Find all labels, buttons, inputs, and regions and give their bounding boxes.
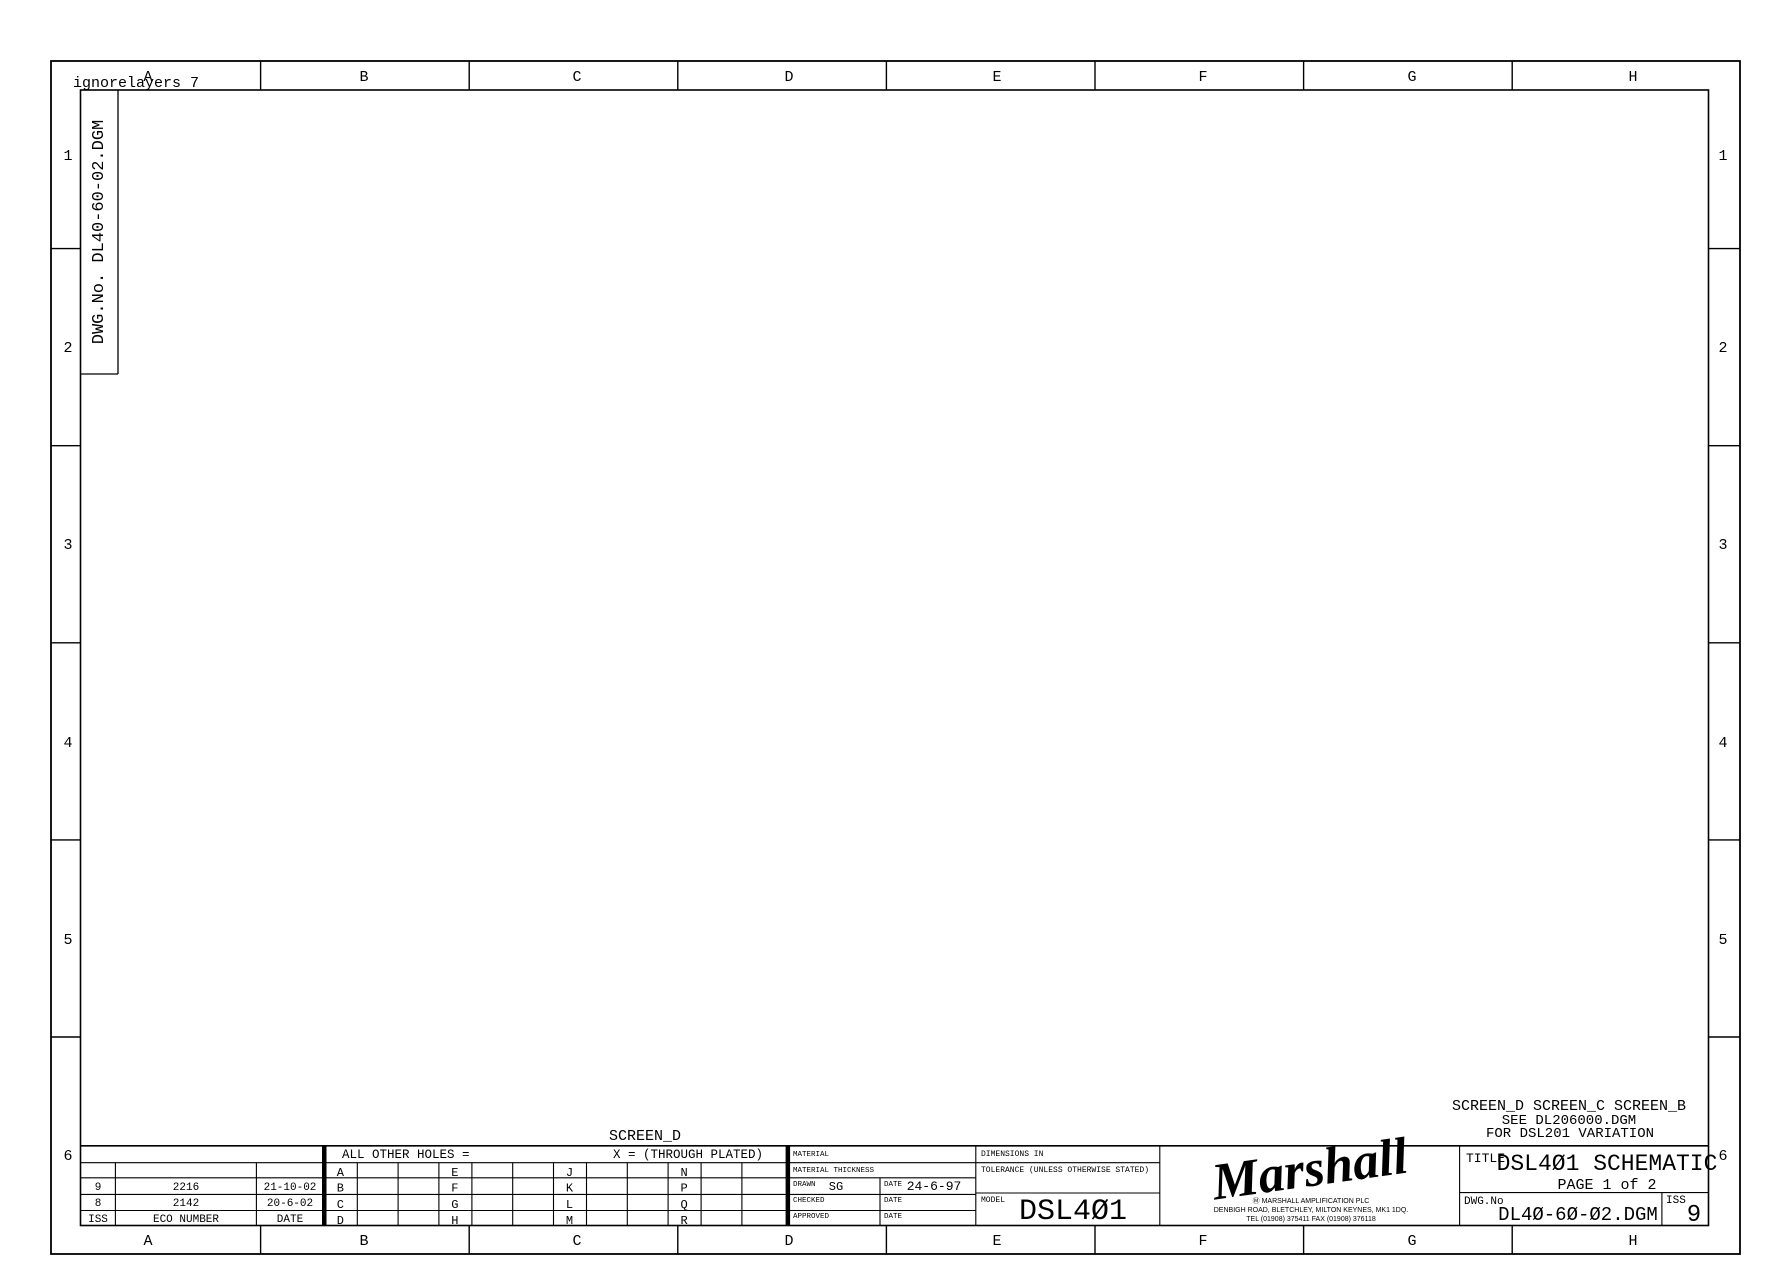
svg-text:24-6-97: 24-6-97 (907, 1179, 962, 1194)
svg-text:P: P (680, 1181, 687, 1195)
svg-text:PAGE 1 of 2: PAGE 1 of 2 (1557, 1177, 1656, 1194)
svg-text:1: 1 (63, 148, 72, 165)
svg-text:TEL (01908) 375411 FAX (01908): TEL (01908) 375411 FAX (01908) 376118 (1246, 1216, 1376, 1223)
svg-text:D: D (784, 69, 793, 86)
svg-text:DATE: DATE (884, 1197, 903, 1205)
svg-text:SG: SG (829, 1180, 843, 1194)
svg-text:K: K (566, 1181, 574, 1195)
svg-text:Q: Q (680, 1198, 687, 1212)
svg-text:G: G (1407, 1233, 1416, 1250)
svg-text:A: A (143, 1233, 152, 1250)
svg-text:2142: 2142 (173, 1198, 199, 1210)
svg-text:F: F (1198, 1233, 1207, 1250)
svg-text:MATERIAL THICKNESS: MATERIAL THICKNESS (793, 1167, 875, 1175)
svg-text:G: G (451, 1198, 458, 1212)
svg-text:R: R (680, 1214, 687, 1228)
svg-text:21-10-02: 21-10-02 (264, 1182, 317, 1194)
svg-text:C: C (337, 1198, 344, 1212)
svg-text:ISS: ISS (1666, 1195, 1686, 1207)
svg-text:DRAWN: DRAWN (793, 1181, 816, 1189)
svg-text:H: H (1628, 69, 1637, 86)
svg-text:9: 9 (95, 1182, 102, 1194)
svg-text:G: G (1407, 69, 1416, 86)
svg-text:E: E (451, 1166, 458, 1180)
svg-text:A: A (337, 1166, 345, 1180)
svg-text:Ⓜ MARSHALL AMPLIFICATION PLC: Ⓜ MARSHALL AMPLIFICATION PLC (1253, 1197, 1370, 1205)
svg-text:F: F (451, 1181, 458, 1195)
svg-text:L: L (566, 1198, 573, 1212)
svg-text:FOR DSL201 VARIATION: FOR DSL201 VARIATION (1486, 1126, 1654, 1142)
svg-text:H: H (451, 1214, 458, 1228)
svg-text:C: C (572, 1233, 581, 1250)
svg-text:DATE: DATE (884, 1181, 903, 1189)
svg-text:M: M (566, 1214, 573, 1228)
svg-text:TOLERANCE (UNLESS OTHERWISE ST: TOLERANCE (UNLESS OTHERWISE STATED) (981, 1166, 1149, 1175)
svg-text:ISS: ISS (88, 1214, 108, 1226)
svg-text:DL4Ø-6Ø-Ø2.DGM: DL4Ø-6Ø-Ø2.DGM (1498, 1204, 1658, 1226)
svg-text:6: 6 (1718, 1148, 1727, 1165)
svg-text:C: C (572, 69, 581, 86)
svg-text:5: 5 (1718, 932, 1727, 949)
svg-text:9: 9 (1687, 1202, 1701, 1229)
svg-text:DATE: DATE (884, 1213, 903, 1221)
svg-text:ECO NUMBER: ECO NUMBER (153, 1214, 219, 1226)
svg-text:4: 4 (1718, 735, 1727, 752)
svg-text:ALL OTHER HOLES =: ALL OTHER HOLES = (342, 1148, 470, 1162)
svg-text:ignorelayers 7: ignorelayers 7 (73, 75, 199, 92)
svg-text:6: 6 (63, 1148, 72, 1165)
svg-text:1: 1 (1718, 148, 1727, 165)
svg-text:B: B (359, 69, 368, 86)
svg-text:3: 3 (63, 537, 72, 554)
svg-text:MATERIAL: MATERIAL (793, 1151, 830, 1159)
svg-text:B: B (359, 1233, 368, 1250)
svg-text:4: 4 (63, 735, 72, 752)
svg-text:DWG.No. DL40-60-02.DGM: DWG.No. DL40-60-02.DGM (90, 120, 109, 344)
svg-text:J: J (566, 1166, 573, 1180)
svg-text:DATE: DATE (277, 1214, 304, 1226)
svg-text:B: B (337, 1181, 344, 1195)
svg-text:DSL4Ø1 SCHEMATIC: DSL4Ø1 SCHEMATIC (1497, 1151, 1718, 1177)
svg-text:20-6-02: 20-6-02 (267, 1198, 313, 1210)
svg-text:D: D (784, 1233, 793, 1250)
svg-text:N: N (680, 1166, 687, 1180)
svg-text:2216: 2216 (173, 1182, 199, 1194)
svg-text:H: H (1628, 1233, 1637, 1250)
svg-text:2: 2 (63, 340, 72, 357)
svg-text:X = (THROUGH PLATED): X = (THROUGH PLATED) (613, 1148, 763, 1162)
svg-text:E: E (992, 69, 1001, 86)
svg-text:2: 2 (1718, 340, 1727, 357)
svg-text:D: D (337, 1214, 344, 1228)
svg-text:3: 3 (1718, 537, 1727, 554)
svg-text:DIMENSIONS IN: DIMENSIONS IN (981, 1150, 1044, 1159)
svg-text:5: 5 (63, 932, 72, 949)
svg-text:DENBIGH ROAD, BLETCHLEY, MILTO: DENBIGH ROAD, BLETCHLEY, MILTON KEYNES, … (1214, 1207, 1409, 1214)
svg-text:E: E (992, 1233, 1001, 1250)
svg-text:SCREEN_D: SCREEN_D (609, 1128, 681, 1145)
svg-text:MODEL: MODEL (981, 1196, 1005, 1205)
svg-text:APPROVED: APPROVED (793, 1213, 830, 1221)
svg-text:F: F (1198, 69, 1207, 86)
svg-text:DSL4Ø1: DSL4Ø1 (1019, 1195, 1127, 1229)
svg-text:CHECKED: CHECKED (793, 1197, 825, 1205)
svg-text:8: 8 (95, 1198, 102, 1210)
